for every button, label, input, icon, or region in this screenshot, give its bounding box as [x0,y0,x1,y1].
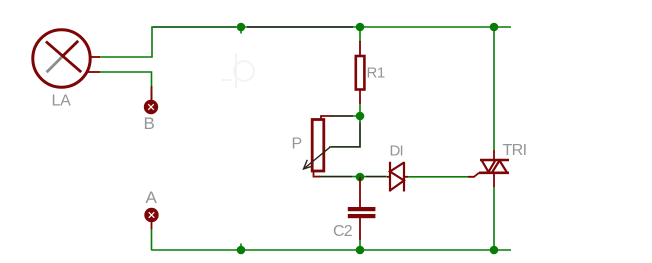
svg-text:C2: C2 [333,223,353,240]
svg-text:R1: R1 [367,65,385,82]
svg-text:P: P [292,136,303,153]
svg-text:LA: LA [52,93,72,110]
svg-text:B: B [144,114,155,133]
svg-text:TRI: TRI [503,142,527,159]
svg-text:DI: DI [390,143,403,160]
svg-text:A: A [146,188,158,207]
